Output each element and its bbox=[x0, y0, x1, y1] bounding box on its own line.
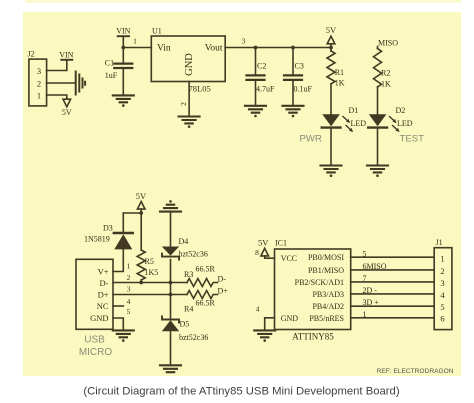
wire 5V rail (U1 Vout to R1 top) bbox=[225, 47, 331, 49]
svg-text:1: 1 bbox=[440, 254, 444, 264]
ground (USB GND) bbox=[113, 330, 134, 342]
ground (C2) bbox=[245, 106, 266, 117]
svg-text:D1: D1 bbox=[349, 106, 359, 115]
svg-text:D-: D- bbox=[218, 275, 227, 284]
wire IC1 GND pin 4 to ground bbox=[265, 318, 275, 330]
svg-text:Vout: Vout bbox=[205, 44, 223, 54]
svg-text:6: 6 bbox=[440, 314, 444, 324]
svg-text:C1: C1 bbox=[105, 59, 114, 68]
wire IC1 pin6 to J1 pin2 bbox=[351, 269, 435, 271]
svg-text:2: 2 bbox=[179, 102, 188, 106]
resistor R2 bbox=[374, 49, 382, 88]
svg-text:LED: LED bbox=[351, 119, 367, 128]
svg-text:VIN: VIN bbox=[59, 51, 73, 60]
svg-text:1K5: 1K5 bbox=[145, 268, 159, 277]
svg-text:3D +: 3D + bbox=[363, 298, 380, 307]
svg-text:2D -: 2D - bbox=[363, 286, 378, 295]
svg-text:78L05: 78L05 bbox=[189, 84, 211, 94]
USB GND pin to ground bbox=[113, 318, 123, 330]
wire 5V to IC1 VCC pin 8 bbox=[265, 256, 275, 258]
junction node C2/rail bbox=[254, 46, 258, 50]
svg-text:NC: NC bbox=[97, 301, 109, 311]
junction node R5/D- bbox=[139, 281, 143, 285]
net label tick VIN (top) bbox=[118, 35, 129, 37]
power symbol 5V (USB section) bbox=[137, 202, 145, 210]
wire C2 drop bbox=[255, 48, 257, 75]
net label tick VIN (J2) bbox=[61, 59, 72, 61]
IC1 body bbox=[275, 249, 351, 330]
svg-text:5V: 5V bbox=[136, 191, 147, 201]
wire U1 pin2 to ground bbox=[188, 82, 190, 116]
svg-text:ATTINY85: ATTINY85 bbox=[292, 332, 334, 342]
svg-text:U1: U1 bbox=[152, 27, 162, 36]
zener D5 (bzt52c36) bbox=[162, 317, 179, 332]
wire J2 pin2 to chassis ground bbox=[47, 82, 76, 84]
svg-text:D-: D- bbox=[100, 278, 109, 288]
LED D2 bbox=[368, 114, 387, 127]
svg-text:D4: D4 bbox=[179, 237, 189, 246]
wire VIN node to U1 pin1 bbox=[123, 47, 151, 49]
svg-text:3: 3 bbox=[440, 278, 444, 288]
svg-text:PWR: PWR bbox=[300, 134, 322, 145]
wire VIN node to C1 bbox=[122, 48, 124, 63]
wire ground to D4 bbox=[170, 212, 172, 247]
junction node VIN bbox=[121, 46, 125, 50]
wire D+ line (USB D+ to R4) bbox=[113, 294, 187, 296]
ground (D2) bbox=[367, 166, 388, 178]
top sliver of previous image bbox=[25, 0, 461, 3]
ground (U1 GND) bbox=[179, 117, 200, 128]
wire R5 to D- line bbox=[140, 280, 142, 283]
ground (D1) bbox=[321, 166, 342, 178]
svg-text:3: 3 bbox=[127, 285, 131, 294]
svg-text:bzt52c36: bzt52c36 bbox=[179, 333, 208, 342]
wire IC1 pin7 to J1 pin3 bbox=[351, 281, 435, 283]
junction node R1/rail bbox=[329, 46, 333, 50]
svg-text:1K: 1K bbox=[381, 80, 391, 89]
svg-text:D+: D+ bbox=[98, 290, 109, 300]
connector J2 body bbox=[29, 59, 47, 106]
svg-text:1: 1 bbox=[133, 37, 137, 46]
svg-text:IC1: IC1 bbox=[275, 239, 287, 248]
wire 5V symbol to R1 bbox=[330, 44, 332, 51]
junction node D4/D- bbox=[169, 281, 173, 285]
svg-text:D2: D2 bbox=[396, 106, 406, 115]
wire D4 to D-/D+ lines bbox=[170, 260, 172, 319]
resistor R1 bbox=[327, 51, 335, 84]
svg-text:GND: GND bbox=[184, 53, 195, 76]
svg-text:R4: R4 bbox=[184, 305, 193, 314]
wire J2 pin1 to 5V bbox=[47, 95, 67, 99]
wire 5V to R5 / D3 branch bbox=[123, 209, 141, 250]
svg-text:bzt52c36: bzt52c36 bbox=[179, 250, 208, 259]
svg-text:4: 4 bbox=[256, 305, 260, 314]
USB MICRO connector body bbox=[76, 259, 113, 329]
LED D2 light arrows bbox=[390, 117, 400, 132]
svg-text:7: 7 bbox=[363, 274, 367, 283]
power symbol 5V (below J2) bbox=[63, 99, 71, 107]
svg-text:R3: R3 bbox=[184, 270, 193, 279]
svg-text:USB: USB bbox=[84, 335, 105, 346]
svg-text:MICRO: MICRO bbox=[79, 347, 113, 358]
power symbol 5V (above R1) bbox=[327, 36, 335, 44]
wire D- line (USB D- to R3) bbox=[113, 282, 187, 284]
wire IC1 pin3 to J1 pin5 bbox=[351, 305, 435, 307]
svg-text:1: 1 bbox=[363, 310, 367, 319]
svg-text:PB1/MISO: PB1/MISO bbox=[308, 266, 344, 275]
svg-text:6MISO: 6MISO bbox=[363, 262, 387, 271]
svg-text:5: 5 bbox=[363, 250, 367, 259]
svg-text:TEST: TEST bbox=[400, 134, 425, 145]
svg-text:3: 3 bbox=[242, 37, 246, 46]
wire R1 to D1 bbox=[330, 84, 332, 114]
svg-text:GND: GND bbox=[281, 314, 299, 323]
svg-text:2: 2 bbox=[440, 266, 444, 276]
svg-text:5V: 5V bbox=[326, 25, 337, 35]
resistor R3 bbox=[187, 279, 217, 287]
svg-text:R2: R2 bbox=[381, 69, 390, 78]
junction node 5V/R5 bbox=[139, 211, 143, 215]
svg-text:8: 8 bbox=[255, 248, 259, 257]
wire D2 to ground bbox=[377, 129, 379, 165]
ground (IC1 GND) bbox=[254, 330, 275, 342]
svg-text:D5: D5 bbox=[180, 320, 190, 329]
wire J2 pin3 to VIN bbox=[47, 60, 67, 71]
svg-text:1K: 1K bbox=[335, 79, 345, 88]
svg-text:C2: C2 bbox=[257, 62, 266, 71]
wire IC1 pin1 to J1 pin6 bbox=[351, 317, 435, 319]
svg-text:4.7uF: 4.7uF bbox=[256, 85, 275, 94]
junction node C3/rail bbox=[291, 46, 295, 50]
svg-text:PB3/AD3: PB3/AD3 bbox=[312, 290, 344, 299]
svg-text:2: 2 bbox=[127, 273, 131, 282]
svg-text:5V: 5V bbox=[258, 238, 269, 248]
svg-text:MISO: MISO bbox=[378, 39, 398, 48]
ground (C1) bbox=[113, 95, 134, 106]
svg-text:LED: LED bbox=[397, 119, 413, 128]
regulator U1 body bbox=[151, 36, 225, 82]
USB NC pin stub bbox=[113, 305, 123, 307]
junction node D5/D+ bbox=[169, 293, 173, 297]
svg-text:C3: C3 bbox=[295, 62, 304, 71]
svg-text:D+: D+ bbox=[218, 287, 229, 296]
svg-text:J1: J1 bbox=[436, 238, 443, 247]
svg-text:5: 5 bbox=[440, 302, 444, 312]
wire D3 to V+ pin bbox=[113, 249, 123, 271]
chassis ground (earth) symbol bbox=[76, 72, 85, 95]
svg-text:PB4/AD2: PB4/AD2 bbox=[312, 302, 344, 311]
svg-text:R1: R1 bbox=[335, 68, 344, 77]
svg-text:1: 1 bbox=[37, 91, 41, 101]
LED D1 light arrows bbox=[343, 117, 353, 132]
svg-text:3: 3 bbox=[37, 66, 41, 76]
svg-text:0.1uF: 0.1uF bbox=[294, 85, 313, 94]
svg-text:GND: GND bbox=[90, 313, 108, 323]
net stub MISO to R2 bbox=[377, 47, 379, 49]
svg-text:PB5/nRES: PB5/nRES bbox=[309, 314, 344, 323]
wire R2 to D2 bbox=[377, 87, 379, 114]
svg-text:66.5R: 66.5R bbox=[196, 299, 216, 308]
svg-text:(Circuit Diagram of the ATtiny: (Circuit Diagram of the ATtiny85 USB Min… bbox=[83, 386, 399, 398]
wire C1 to ground bbox=[122, 69, 124, 95]
wire C3 drop bbox=[292, 48, 294, 75]
svg-text:PB0/MOSI: PB0/MOSI bbox=[308, 253, 344, 262]
power symbol 5V (IC1 VCC) bbox=[261, 248, 269, 256]
svg-text:1N5819: 1N5819 bbox=[84, 235, 110, 244]
ground (D5) bbox=[160, 365, 181, 372]
svg-text:J2: J2 bbox=[28, 50, 35, 59]
capacitor C2 bbox=[247, 75, 265, 80]
capacitor C1 bbox=[114, 64, 132, 68]
svg-text:66.5R: 66.5R bbox=[196, 265, 216, 274]
svg-text:R5: R5 bbox=[145, 257, 154, 266]
resistor R5 bbox=[137, 250, 145, 280]
diode D3 (1N5819) bbox=[114, 233, 133, 249]
wire D3 column upper bbox=[122, 213, 124, 232]
LED D1 bbox=[322, 114, 341, 127]
svg-text:REF: ELECTRODRAGON: REF: ELECTRODRAGON bbox=[377, 368, 454, 375]
zener D4 (bzt52c36) bbox=[162, 247, 179, 260]
capacitor C3 bbox=[284, 75, 302, 80]
ground (C3) bbox=[283, 106, 304, 117]
net stub VIN (top) bbox=[122, 36, 124, 47]
wire D1 to ground bbox=[330, 129, 332, 165]
svg-text:D3: D3 bbox=[103, 224, 113, 233]
svg-text:5: 5 bbox=[127, 307, 131, 316]
svg-text:VCC: VCC bbox=[281, 254, 297, 263]
svg-text:2: 2 bbox=[37, 79, 41, 89]
connector J1 body bbox=[434, 248, 452, 330]
svg-text:PB2/SCK/AD1: PB2/SCK/AD1 bbox=[295, 278, 344, 287]
wire C3 to ground bbox=[292, 81, 294, 105]
svg-text:1: 1 bbox=[127, 262, 131, 271]
svg-text:V+: V+ bbox=[98, 267, 109, 277]
wire IC1 pin2 to J1 pin4 bbox=[351, 293, 435, 295]
svg-text:5V: 5V bbox=[62, 108, 72, 117]
wire C2 to ground bbox=[255, 81, 257, 105]
inverted ground (above D4) bbox=[160, 200, 181, 212]
wire IC1 pin5 to J1 pin1 bbox=[351, 256, 435, 258]
svg-text:Vin: Vin bbox=[157, 44, 171, 54]
resistor R4 bbox=[187, 291, 217, 299]
svg-text:4: 4 bbox=[127, 297, 131, 306]
svg-text:1uF: 1uF bbox=[105, 71, 118, 80]
svg-text:VIN: VIN bbox=[116, 27, 130, 36]
wire D5 to ground bbox=[170, 331, 172, 364]
